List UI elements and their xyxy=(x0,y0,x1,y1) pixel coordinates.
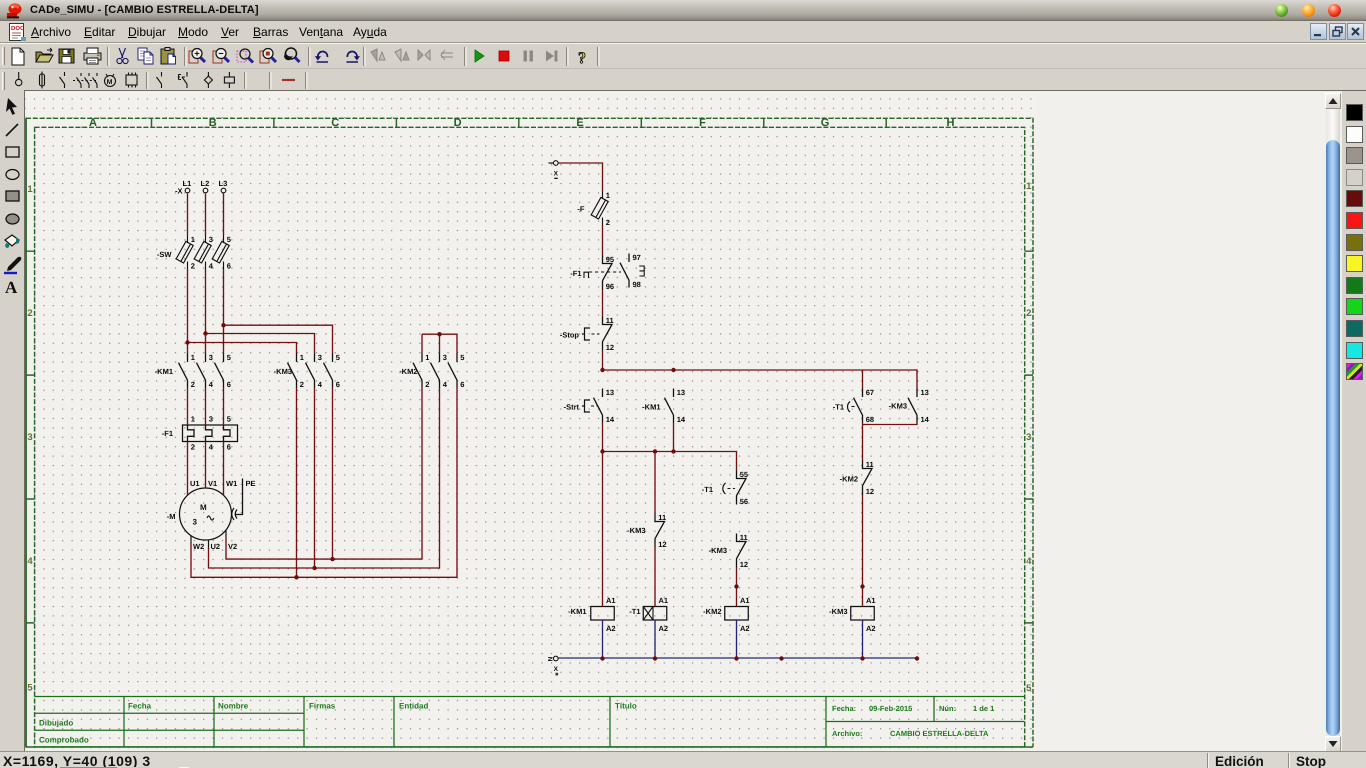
svg-text:4: 4 xyxy=(1026,556,1032,567)
svg-text:1: 1 xyxy=(191,235,195,244)
svg-text:11: 11 xyxy=(658,513,666,522)
svg-text:Comprobado: Comprobado xyxy=(39,736,89,745)
svg-text:?: ? xyxy=(578,50,586,67)
svg-text:5: 5 xyxy=(227,353,231,362)
svg-text:3: 3 xyxy=(209,353,213,362)
svg-text:6: 6 xyxy=(460,380,464,389)
svg-text:Archivo:: Archivo: xyxy=(832,729,862,738)
svg-text:-T1: -T1 xyxy=(702,485,713,494)
svg-text:11: 11 xyxy=(606,316,614,325)
svg-text:1: 1 xyxy=(27,184,33,195)
svg-text:H: H xyxy=(947,117,955,129)
svg-text:-KM2: -KM2 xyxy=(840,475,858,484)
svg-text:-KM3: -KM3 xyxy=(274,367,292,376)
svg-text:PE: PE xyxy=(246,479,256,488)
svg-text:-T1: -T1 xyxy=(629,607,640,616)
svg-text:1 de 1: 1 de 1 xyxy=(973,704,994,713)
svg-text:CAMBIO ESTRELLA-DELTA: CAMBIO ESTRELLA-DELTA xyxy=(890,729,989,738)
svg-text:1: 1 xyxy=(191,415,195,424)
svg-text:12: 12 xyxy=(740,560,748,569)
svg-text:E: E xyxy=(576,117,583,129)
svg-text:98: 98 xyxy=(633,280,641,289)
svg-text:-X: -X xyxy=(175,187,183,196)
svg-text:Dibujado: Dibujado xyxy=(39,719,73,728)
svg-text:12: 12 xyxy=(606,343,614,352)
svg-text:67: 67 xyxy=(866,388,874,397)
svg-text:-KM1: -KM1 xyxy=(642,403,660,412)
svg-text:13: 13 xyxy=(677,388,685,397)
svg-text:5: 5 xyxy=(460,353,464,362)
svg-text:-F1: -F1 xyxy=(570,269,581,278)
svg-text:V2: V2 xyxy=(228,542,237,551)
svg-text:X: X xyxy=(554,666,559,673)
svg-text:1: 1 xyxy=(1026,181,1032,192)
svg-text:A1: A1 xyxy=(866,596,876,605)
svg-text:6: 6 xyxy=(336,380,340,389)
svg-text:DOC: DOC xyxy=(11,25,25,32)
svg-text:1: 1 xyxy=(300,353,304,362)
svg-text:-F: -F xyxy=(577,205,584,214)
svg-text:A2: A2 xyxy=(659,624,669,633)
svg-text:2: 2 xyxy=(191,443,195,452)
svg-text:A1: A1 xyxy=(606,596,616,605)
svg-text:A2: A2 xyxy=(606,624,616,633)
svg-text:Fecha: Fecha xyxy=(128,702,152,711)
svg-text:3: 3 xyxy=(27,432,32,443)
svg-text:A: A xyxy=(5,278,18,297)
svg-text:-M: -M xyxy=(167,512,176,521)
svg-text:5: 5 xyxy=(336,353,340,362)
svg-text:X: X xyxy=(554,171,559,178)
svg-text:56: 56 xyxy=(740,497,748,506)
svg-text:F: F xyxy=(699,117,706,129)
svg-text:1: 1 xyxy=(606,191,610,200)
svg-text:-KM2: -KM2 xyxy=(399,367,417,376)
svg-text:-KM3: -KM3 xyxy=(829,607,847,616)
svg-text:2: 2 xyxy=(606,218,610,227)
svg-text:Fecha:: Fecha: xyxy=(832,704,856,713)
svg-text:N: N xyxy=(548,656,555,661)
svg-text:-Strt: -Strt xyxy=(564,403,580,412)
svg-text:2: 2 xyxy=(191,380,195,389)
svg-text:14: 14 xyxy=(921,415,930,424)
svg-text:-KM1: -KM1 xyxy=(155,367,173,376)
svg-text:2: 2 xyxy=(27,308,32,319)
svg-text:2: 2 xyxy=(425,380,429,389)
svg-text:2: 2 xyxy=(1026,308,1031,319)
svg-text:-Stop: -Stop xyxy=(560,331,580,340)
svg-text:-KM3: -KM3 xyxy=(627,526,645,535)
svg-text:11: 11 xyxy=(740,533,748,542)
svg-text:2: 2 xyxy=(300,380,304,389)
svg-text:W2: W2 xyxy=(193,542,204,551)
svg-text:-KM3: -KM3 xyxy=(889,402,907,411)
svg-text:12: 12 xyxy=(866,487,874,496)
svg-text:Título: Título xyxy=(615,702,637,711)
svg-text:U2: U2 xyxy=(211,542,221,551)
svg-text:55: 55 xyxy=(740,470,748,479)
svg-text:W1: W1 xyxy=(226,479,237,488)
svg-text:3: 3 xyxy=(443,353,447,362)
svg-text:U1: U1 xyxy=(190,479,200,488)
svg-text:3: 3 xyxy=(209,235,213,244)
svg-text:68: 68 xyxy=(866,415,874,424)
svg-text:-KM1: -KM1 xyxy=(568,607,586,616)
svg-text:C: C xyxy=(331,117,339,129)
svg-text:A1: A1 xyxy=(740,596,750,605)
svg-text:G: G xyxy=(821,117,830,129)
svg-text:2: 2 xyxy=(191,262,195,271)
svg-text:5: 5 xyxy=(227,235,231,244)
svg-text:3: 3 xyxy=(318,353,322,362)
svg-text:5: 5 xyxy=(1026,683,1032,694)
svg-text:13: 13 xyxy=(606,388,614,397)
svg-text:14: 14 xyxy=(677,415,686,424)
svg-text:Firmas: Firmas xyxy=(309,702,336,711)
svg-text:1: 1 xyxy=(425,353,429,362)
svg-text:13: 13 xyxy=(921,388,929,397)
svg-text:14: 14 xyxy=(606,415,615,424)
svg-text:-KM2: -KM2 xyxy=(703,607,721,616)
svg-text:3: 3 xyxy=(1026,432,1031,443)
svg-text:6: 6 xyxy=(227,380,231,389)
svg-text:A2: A2 xyxy=(740,624,750,633)
svg-text:3: 3 xyxy=(209,415,213,424)
svg-text:B: B xyxy=(209,117,217,129)
svg-text:3: 3 xyxy=(193,518,198,527)
svg-text:L1: L1 xyxy=(183,179,192,188)
svg-text:Nún:: Nún: xyxy=(939,704,956,713)
svg-text:L2: L2 xyxy=(201,179,210,188)
svg-text:V1: V1 xyxy=(208,479,217,488)
svg-text:-SW: -SW xyxy=(157,250,173,259)
svg-text:L3: L3 xyxy=(219,179,228,188)
svg-text:5: 5 xyxy=(27,683,33,694)
svg-text:-KM3: -KM3 xyxy=(709,546,727,555)
svg-text:1: 1 xyxy=(191,353,195,362)
svg-text:Nombre: Nombre xyxy=(218,702,249,711)
svg-text:09-Feb-2015: 09-Feb-2015 xyxy=(869,704,912,713)
svg-text:6: 6 xyxy=(227,443,231,452)
svg-text:A: A xyxy=(89,117,97,129)
svg-text:M: M xyxy=(200,503,207,512)
svg-text:5: 5 xyxy=(227,415,231,424)
svg-text:-F1: -F1 xyxy=(162,429,173,438)
svg-text:M: M xyxy=(107,79,113,86)
svg-text:97: 97 xyxy=(633,253,641,262)
svg-text:12: 12 xyxy=(658,540,666,549)
svg-text:6: 6 xyxy=(227,262,231,271)
svg-text:D: D xyxy=(454,117,462,129)
svg-text:A2: A2 xyxy=(866,624,876,633)
svg-text:96: 96 xyxy=(606,282,614,291)
svg-text:Entidad: Entidad xyxy=(399,702,428,711)
svg-text:11: 11 xyxy=(866,460,874,469)
svg-text:4: 4 xyxy=(27,556,33,567)
svg-text:-T1: -T1 xyxy=(833,403,844,412)
svg-text:A1: A1 xyxy=(659,596,669,605)
svg-text:95: 95 xyxy=(606,255,614,264)
